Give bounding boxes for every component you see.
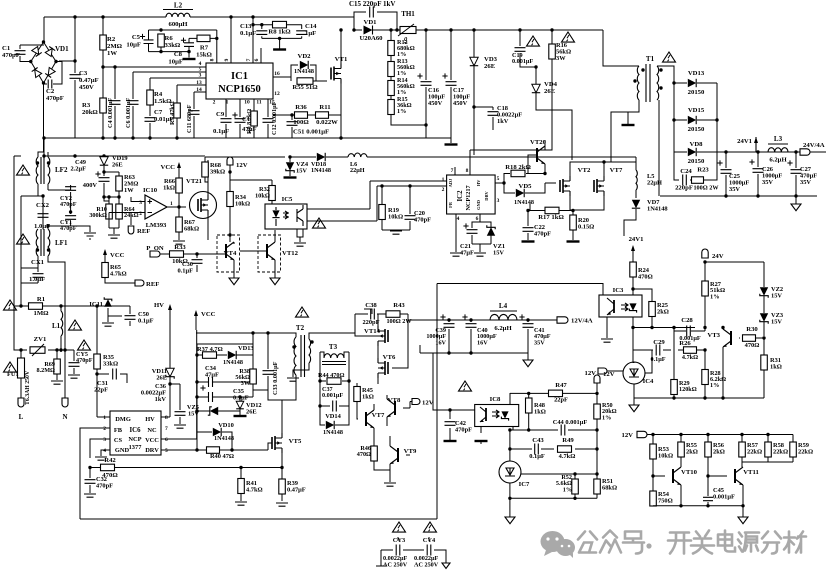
wire left drop to LF2 [43, 138, 45, 152]
wire vd7 down [624, 209, 636, 236]
wire cy2 col [48, 185, 71, 212]
svg-text:R49: R49 [562, 437, 574, 444]
P_ON terminal [150, 251, 160, 257]
wire sec top [657, 66, 674, 196]
svg-text:1kV: 1kV [155, 396, 167, 403]
wire c40 col [470, 320, 472, 353]
svg-text:VD14: VD14 [325, 413, 341, 420]
svg-text:C5: C5 [132, 34, 141, 41]
svg-text:VCC: VCC [145, 437, 159, 444]
svg-text:R5 47kΩ: R5 47kΩ [169, 101, 176, 125]
wire border [436, 284, 438, 520]
wire gnd stub [633, 398, 635, 405]
wire c33 bottom [268, 390, 282, 400]
svg-text:1%: 1% [602, 414, 611, 421]
svg-text:R33: R33 [174, 244, 186, 251]
svg-text:VT9: VT9 [404, 448, 417, 455]
svg-text:R1: R1 [37, 296, 45, 303]
svg-text:VD15: VD15 [688, 107, 705, 114]
wire VD3 bottom to rail [473, 107, 475, 155]
svg-text:1: 1 [170, 201, 173, 207]
common-mode choke LF1 [36, 229, 38, 256]
mosfet VT14 [378, 326, 388, 346]
svg-text:20150: 20150 [688, 158, 705, 165]
resistor R17 1k [545, 207, 559, 214]
svg-text:R40 47Ω: R40 47Ω [210, 453, 234, 460]
wire r41 col [240, 468, 242, 502]
warning triangle [4, 300, 17, 310]
resistor R50 20k 1% [594, 404, 601, 419]
warning triangle CY4 [424, 522, 437, 532]
wire VD3 col [473, 30, 475, 107]
svg-text:VT21: VT21 [186, 178, 202, 185]
wire C10 column [239, 99, 241, 138]
wire c5r6 rail [149, 51, 190, 53]
wire pin6 vcc [161, 330, 197, 439]
svg-text:220pF: 220pF [675, 185, 693, 192]
wire VT2/VT7 drains [570, 162, 636, 176]
wire R13 col [390, 60, 392, 62]
wire 24v1 stub [755, 145, 757, 152]
svg-text:VCC: VCC [161, 164, 176, 171]
wire r24 down [632, 277, 634, 289]
wire c21 col [472, 214, 491, 244]
diode VD12 26E [236, 401, 244, 409]
wire 12v rail [205, 157, 285, 172]
wire cy34 tap [398, 537, 429, 545]
earth ground [84, 233, 96, 239]
svg-text:22μH: 22μH [350, 167, 365, 174]
wire r39 col [281, 468, 283, 502]
wire VD4 col [536, 67, 572, 160]
svg-text:33kΩ: 33kΩ [165, 42, 181, 49]
wire r54 col [652, 486, 654, 506]
svg-text:C8: C8 [174, 51, 183, 58]
wire r31 col [763, 338, 765, 398]
svg-text:470pF: 470pF [60, 201, 77, 208]
svg-text:1%: 1% [397, 108, 406, 115]
svg-text:1%: 1% [563, 486, 572, 493]
svg-text:470pF: 470pF [414, 217, 431, 224]
svg-text:4: 4 [103, 448, 106, 454]
svg-text:TH1: TH1 [401, 10, 415, 18]
warning triangle [78, 340, 91, 350]
svg-text:NCP: NCP [128, 436, 141, 443]
warning triangle [69, 320, 82, 330]
wire c33 col [267, 352, 269, 390]
svg-text:6.2μH: 6.2μH [494, 325, 512, 332]
svg-text:DRV: DRV [145, 447, 159, 454]
wire to T1 [603, 30, 639, 66]
svg-text:VD1: VD1 [55, 45, 69, 53]
wire l6 right [367, 157, 636, 160]
wire vz3 down [763, 322, 765, 336]
wire vt11 wires [708, 462, 743, 506]
wire pin3 cs [90, 439, 110, 458]
wire ic3 em [606, 317, 608, 338]
svg-text:600μH: 600μH [168, 21, 188, 28]
wire l3 row [726, 151, 768, 153]
transistor VT9 [390, 446, 398, 464]
wire rail430 [510, 429, 597, 431]
svg-text:1μF: 1μF [305, 30, 316, 37]
wire fu1 col [20, 350, 22, 398]
svg-text:VD1: VD1 [363, 19, 376, 26]
mosfet VT5 [272, 433, 282, 453]
wire vt7b wires [357, 404, 374, 436]
svg-text:C24: C24 [680, 168, 692, 175]
svg-text:VT7: VT7 [372, 412, 385, 419]
svg-text:26E: 26E [246, 409, 257, 416]
wire r28 col [704, 350, 706, 398]
wire rail449 [510, 448, 597, 450]
svg-text:1: 1 [442, 177, 445, 183]
svg-text:VT10: VT10 [681, 469, 698, 476]
wire pin16 wire [273, 65, 298, 81]
resistor R24 470R [630, 262, 637, 277]
svg-text:15V: 15V [771, 319, 782, 326]
bridge rectifier VD1 [31, 42, 56, 83]
wire bridge top lead [43, 17, 45, 42]
svg-text:100Ω 2W: 100Ω 2W [693, 185, 719, 192]
wire r10 col [108, 197, 110, 228]
svg-text:R36: R36 [295, 104, 307, 111]
svg-text:22kΩ: 22kΩ [798, 449, 813, 456]
svg-text:IC7: IC7 [519, 481, 530, 488]
wire r57 col [741, 435, 743, 463]
wire diode to TH1 [373, 29, 400, 31]
wire r26 right [697, 349, 705, 351]
wire r27 col [704, 262, 706, 328]
svg-text:68kΩ: 68kΩ [184, 226, 199, 233]
svg-text:0.15Ω: 0.15Ω [578, 224, 594, 231]
wire R14-R15 [390, 95, 392, 100]
wire r67 col [178, 207, 180, 240]
svg-text:12V: 12V [422, 400, 434, 407]
svg-text:1kV: 1kV [497, 118, 509, 125]
wire C13 rail [253, 25, 302, 39]
wire r55 col [680, 435, 682, 468]
svg-text:IC10: IC10 [143, 187, 158, 194]
svg-text:2: 2 [442, 187, 445, 193]
svg-text:10: 10 [244, 100, 250, 106]
svg-text:1MΩ: 1MΩ [33, 310, 49, 317]
inductor L6 22uH [348, 153, 367, 157]
svg-text:CX1: CX1 [31, 259, 44, 266]
svg-text:4.7kΩ: 4.7kΩ [110, 271, 127, 278]
op-amp U IC1 box [206, 63, 273, 99]
svg-text:2: 2 [139, 211, 142, 217]
L terminal [18, 398, 24, 407]
wire r29 col [673, 331, 675, 398]
wire out gnd [660, 195, 817, 197]
wire c35 row [197, 390, 253, 397]
wire c41 col [527, 320, 529, 353]
transistor VT20 [537, 146, 545, 164]
svg-text:22μH: 22μH [647, 180, 662, 187]
svg-text:15: 15 [269, 100, 275, 106]
wire c22 col [527, 211, 529, 241]
wire c31 loop [97, 374, 127, 411]
wire vt8 wires [387, 395, 410, 426]
svg-text:450V: 450V [428, 100, 443, 107]
svg-text:15kΩ: 15kΩ [196, 52, 212, 59]
svg-text:6: 6 [476, 216, 479, 222]
svg-text:DRV: DRV [484, 190, 489, 200]
wire vt stack wires [355, 314, 408, 384]
wire bridge bottom lead [43, 83, 45, 152]
wire fb gnd rail [634, 397, 764, 399]
svg-text:10kΩ: 10kΩ [235, 201, 250, 208]
svg-text:10kΩ: 10kΩ [255, 193, 270, 200]
svg-text:VD5: VD5 [518, 183, 532, 190]
wire HV bus [416, 29, 603, 31]
wire r20 col [572, 211, 574, 241]
svg-text:VT6: VT6 [383, 354, 396, 361]
24V terminal [702, 249, 708, 258]
svg-text:R43: R43 [393, 302, 405, 309]
svg-text:3: 3 [497, 198, 500, 204]
svg-text:2.2μF: 2.2μF [70, 166, 86, 173]
wire C18 col [474, 107, 493, 130]
svg-text:0.47μF: 0.47μF [287, 487, 306, 494]
svg-text:T3: T3 [329, 343, 338, 351]
wire vd5 row [504, 183, 545, 193]
wire gnd line [341, 138, 451, 143]
svg-text:R17 1kΩ: R17 1kΩ [538, 214, 564, 221]
svg-text:470Ω: 470Ω [357, 451, 371, 458]
wire r48 col [528, 393, 530, 430]
wire rail [633, 317, 695, 363]
wire r57 r58 r59 join [742, 461, 793, 463]
svg-text:47μF: 47μF [205, 372, 219, 379]
svg-text:3: 3 [103, 437, 106, 443]
svg-text:FB: FB [448, 202, 453, 208]
svg-text:0.022W: 0.022W [316, 119, 338, 126]
resistor R30 470R [743, 335, 756, 342]
svg-text:0.1μF: 0.1μF [177, 268, 193, 275]
inductor L1 [61, 311, 63, 336]
wire gnd stubs [104, 197, 119, 234]
wire r59 col [792, 435, 794, 463]
svg-text:20150: 20150 [688, 89, 705, 96]
wire pin2 fb [80, 428, 110, 519]
transistor VT8 [387, 399, 395, 417]
wire vd10 loop [197, 432, 232, 450]
wire c37 col [320, 381, 349, 406]
svg-text:470pF: 470pF [2, 52, 20, 59]
svg-text:9: 9 [224, 58, 230, 61]
svg-text:470Ω: 470Ω [638, 274, 653, 281]
svg-text:R42: R42 [104, 457, 116, 464]
svg-text:CY3: CY3 [393, 537, 405, 544]
svg-text:0.001μF: 0.001μF [322, 392, 343, 399]
wire R11 right [329, 114, 341, 116]
svg-text:C15 220pF 1kV: C15 220pF 1kV [349, 0, 395, 8]
wire top bus left [44, 16, 166, 18]
svg-text:0.001μF: 0.001μF [512, 58, 533, 65]
wire r25 down [651, 316, 653, 328]
wire vd12 col [239, 397, 241, 415]
svg-text:7: 7 [165, 426, 168, 432]
wire C3 column [59, 17, 75, 138]
wire R3 column [102, 67, 104, 138]
svg-text:L: L [19, 413, 24, 421]
wire c50 col [108, 306, 130, 326]
wire vd11 col [169, 377, 171, 384]
wire row y115 [273, 114, 315, 116]
svg-text:AC 250V: AC 250V [383, 562, 408, 569]
wire c45 col [707, 490, 709, 506]
svg-text:400V: 400V [83, 182, 98, 189]
svg-text:1W: 1W [124, 187, 134, 194]
svg-text:2: 2 [213, 100, 216, 106]
transformer T2 [294, 337, 296, 375]
svg-text:C4 0.001μF: C4 0.001μF [107, 97, 114, 128]
svg-text:C6 0.001μF: C6 0.001μF [125, 97, 132, 128]
svg-text:GND: GND [476, 200, 481, 210]
wire r58 col [767, 435, 769, 463]
wire cx1 col [21, 268, 38, 283]
svg-text:470pF: 470pF [46, 95, 64, 102]
wire pin6 [260, 48, 262, 63]
svg-text:4.7kΩ: 4.7kΩ [246, 487, 263, 494]
wire VT2/VT7 sources [570, 196, 604, 210]
svg-text:3W: 3W [556, 55, 566, 62]
wire ic7 col [510, 430, 597, 498]
wire lf1 wires [38, 196, 71, 297]
svg-text:3W: 3W [241, 380, 251, 387]
svg-text:R7: R7 [200, 45, 209, 52]
svg-text:R6: R6 [165, 35, 174, 42]
svg-text:L2: L2 [174, 2, 183, 10]
wire cy5 col [61, 350, 74, 374]
svg-text:P_ON: P_ON [146, 245, 164, 252]
svg-text:R55 51Ω: R55 51Ω [292, 84, 318, 91]
svg-text:10μF: 10μF [126, 42, 141, 49]
wire r64 col [104, 197, 119, 228]
wire C6 column [132, 72, 134, 138]
svg-text:750Ω: 750Ω [658, 498, 673, 505]
wire C27 col [795, 152, 797, 196]
svg-text:0.1μF: 0.1μF [138, 318, 154, 325]
svg-text:3: 3 [139, 200, 142, 206]
svg-text:GND: GND [115, 447, 130, 454]
optocoupler IC5 [265, 204, 307, 229]
wire r40 row [197, 443, 272, 450]
svg-text:VD8: VD8 [689, 141, 703, 148]
svg-text:1N4148: 1N4148 [647, 206, 668, 213]
svg-text:1.0μF: 1.0μF [29, 276, 45, 283]
svg-text:T6.3AH 250V: T6.3AH 250V [25, 370, 31, 405]
svg-text:5: 5 [165, 448, 168, 454]
svg-text:1%: 1% [710, 293, 720, 300]
wire C25 col [725, 152, 727, 196]
wire c29 row [633, 349, 683, 351]
wire c5 col [148, 30, 150, 52]
svg-text:1: 1 [226, 100, 229, 106]
TL431 IC7 [499, 461, 521, 483]
VCC arrow net [194, 310, 198, 316]
svg-text:1N4148: 1N4148 [294, 68, 314, 75]
svg-text:C1: C1 [2, 45, 10, 52]
svg-text:470pF: 470pF [96, 483, 113, 490]
wire R15 bottom [391, 114, 426, 125]
wire ref stub [130, 213, 132, 226]
wire C19 col [520, 30, 536, 67]
wire r51 col [596, 474, 598, 498]
svg-text:C33 0.001μF: C33 0.001μF [272, 361, 279, 395]
wire R4 column [149, 78, 151, 112]
svg-text:VD3: VD3 [484, 56, 498, 63]
wire vz4 col [289, 157, 291, 176]
wire snub loop [674, 152, 717, 180]
warning triangle [527, 36, 540, 46]
svg-text:12V: 12V [621, 432, 633, 439]
svg-text:22kΩ: 22kΩ [747, 449, 762, 456]
svg-text:24V1: 24V1 [737, 138, 752, 145]
wire vt21 drain [207, 160, 209, 240]
wire pin7 stub [454, 167, 456, 175]
transistor VT3 [723, 329, 731, 347]
wire vt10 wires [653, 467, 681, 506]
wire bus drop [190, 17, 354, 30]
svg-text:6: 6 [254, 58, 260, 61]
svg-text:CS: CS [114, 437, 123, 444]
wire ic8 l [460, 410, 481, 444]
wire R5 column [176, 85, 178, 138]
svg-text:0.001μF: 0.001μF [713, 494, 735, 501]
wire C9 column [225, 99, 227, 138]
wire r38 col [253, 355, 268, 390]
wire r1 row [14, 305, 62, 307]
wire vt5 wires [268, 381, 296, 468]
svg-text:VD2: VD2 [297, 53, 311, 60]
watermark text gongzhonghao switching power supply analysis [578, 532, 597, 553]
svg-text:IC3: IC3 [613, 287, 624, 294]
svg-text:NC: NC [147, 427, 157, 434]
12V terminal [227, 157, 233, 165]
wire pin8 hv [161, 384, 170, 417]
svg-text:1N4148: 1N4148 [323, 429, 343, 436]
svg-text:35V: 35V [762, 179, 773, 186]
HV arrow net [168, 304, 172, 310]
wire r7 row [189, 37, 217, 39]
svg-text:C7: C7 [154, 109, 163, 116]
inductor L2 [166, 13, 190, 17]
terminal 24V/4A [800, 149, 810, 155]
svg-text:C28: C28 [681, 317, 693, 324]
resistor R47 22pF(parallel) [549, 390, 563, 397]
svg-text:24V1: 24V1 [629, 236, 644, 243]
wire C15 loop [354, 12, 397, 30]
svg-text:1N4148: 1N4148 [514, 199, 534, 206]
VCC arrow 2 [103, 249, 107, 255]
svg-text:47μF: 47μF [460, 250, 474, 257]
op-amp U IC2 box [447, 175, 496, 214]
svg-text:1N4148: 1N4148 [214, 435, 234, 442]
wire ic11 down [108, 308, 122, 316]
wire fb long [437, 284, 603, 296]
wire node row y67 [103, 66, 206, 68]
12V terminal top [594, 375, 600, 383]
svg-text:1kΩ: 1kΩ [362, 394, 374, 401]
wire r30 right [756, 337, 764, 339]
svg-text:C14: C14 [305, 23, 317, 30]
svg-text:3: 3 [199, 73, 202, 79]
wire vt3 wires [723, 328, 740, 399]
wire c28 row [674, 328, 691, 332]
